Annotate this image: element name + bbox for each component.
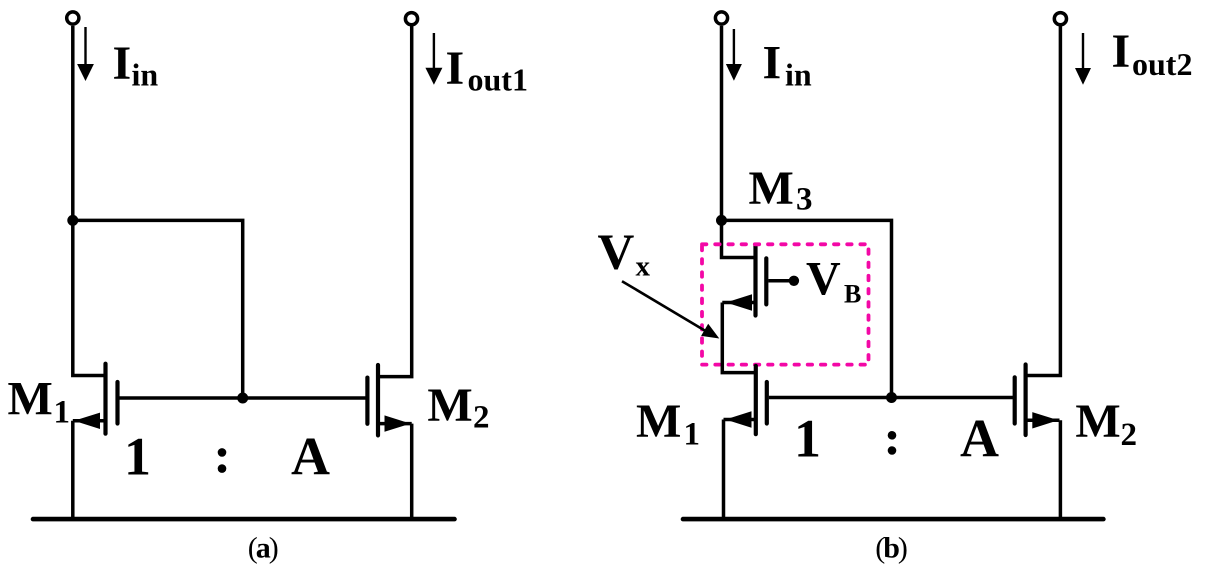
label V_B (b) bbox=[806, 252, 861, 308]
node: gate junction (a) bbox=[237, 393, 248, 404]
wire: input vertical (b) bbox=[720, 26, 724, 221]
svg-text:2: 2 bbox=[473, 400, 490, 436]
svg-text:V: V bbox=[806, 252, 841, 305]
wire: M1 source to ground (a) bbox=[71, 421, 75, 519]
label I_in (b) bbox=[763, 37, 812, 93]
svg-text:A: A bbox=[291, 426, 330, 486]
wire: top connection to gate column (b) bbox=[722, 220, 892, 397]
terminal: input port (b) bbox=[715, 12, 727, 24]
svg-text:1: 1 bbox=[684, 417, 701, 453]
label ratio colon (a) bbox=[218, 448, 227, 473]
svg-text:V: V bbox=[598, 225, 635, 281]
wire: M1 drain connection (a) bbox=[73, 219, 106, 376]
node: gate junction (b) bbox=[886, 392, 897, 403]
svg-text:(a): (a) bbox=[248, 532, 278, 565]
wire: M2 drain connection (b) bbox=[1026, 26, 1061, 376]
wire: M2 source to ground (b) bbox=[1059, 420, 1063, 519]
svg-text:I: I bbox=[446, 42, 465, 95]
svg-text:M: M bbox=[749, 162, 794, 215]
svg-text:2: 2 bbox=[1121, 417, 1138, 453]
wire: M3 drain connection (b) bbox=[722, 219, 756, 258]
label V_x (b) bbox=[598, 225, 651, 283]
wire: M2 source to ground (a) bbox=[410, 424, 414, 519]
svg-text:out2: out2 bbox=[1132, 46, 1192, 82]
wire: M3 source to M1 drain (b) bbox=[722, 303, 756, 373]
svg-text:M: M bbox=[636, 395, 681, 448]
transistor M2 (a) bbox=[367, 365, 411, 435]
svg-text:(b): (b) bbox=[875, 532, 907, 565]
svg-text:out1: out1 bbox=[468, 62, 528, 98]
svg-text:I: I bbox=[1112, 25, 1131, 78]
wire: diode connection (a) bbox=[73, 220, 243, 398]
label ratio colon (b) bbox=[888, 431, 897, 455]
terminal: output port (b) bbox=[1054, 13, 1066, 25]
wire: gate bus (b) bbox=[769, 396, 1015, 400]
svg-text:M: M bbox=[8, 373, 53, 426]
transistor M1 (b) bbox=[724, 366, 767, 434]
label I_out1 (a) bbox=[446, 42, 528, 98]
label M1 (b) bbox=[636, 395, 700, 452]
wire: input vertical (a) bbox=[71, 26, 75, 221]
svg-text:B: B bbox=[844, 279, 861, 308]
wire: M3 gate stub (b) bbox=[768, 279, 794, 283]
dashed highlight box (b) bbox=[702, 244, 869, 364]
node: VB gate dot (b) bbox=[789, 276, 799, 286]
wire: gate bus (a) bbox=[120, 396, 368, 400]
current arrow Iout2 (b) bbox=[1075, 33, 1091, 85]
terminal: output port (a) bbox=[405, 13, 417, 25]
svg-text:I: I bbox=[113, 37, 132, 90]
transistor M1 (a) bbox=[73, 364, 118, 434]
node: input junction (a) bbox=[67, 215, 78, 226]
transistor M3 (b) bbox=[722, 246, 766, 316]
wire: M1 source to ground (b) bbox=[722, 420, 726, 520]
ground rail (a) bbox=[33, 517, 455, 522]
label M2 (a) bbox=[427, 379, 489, 436]
svg-text:M: M bbox=[427, 379, 472, 432]
label M3 (b) bbox=[749, 162, 813, 218]
current arrow Iout1 (a) bbox=[425, 33, 442, 85]
svg-text:1: 1 bbox=[54, 395, 71, 431]
svg-text:M: M bbox=[1075, 395, 1120, 448]
wire: M2 drain connection (a) bbox=[378, 26, 412, 377]
current arrow Iin (b) bbox=[726, 29, 742, 81]
label I_in (a) bbox=[113, 37, 159, 93]
svg-text:1: 1 bbox=[794, 408, 821, 468]
annotation arrow Vx (b) bbox=[622, 281, 719, 338]
terminal: input port (a) bbox=[67, 12, 79, 24]
current arrow Iin (a) bbox=[77, 27, 94, 81]
ground rail (b) bbox=[683, 517, 1103, 522]
svg-text:in: in bbox=[785, 57, 812, 93]
label M1 (a) bbox=[8, 373, 71, 431]
svg-text:A: A bbox=[960, 408, 999, 468]
svg-text:3: 3 bbox=[796, 182, 813, 218]
svg-text:I: I bbox=[763, 37, 782, 90]
svg-text:1: 1 bbox=[124, 426, 151, 486]
svg-text:in: in bbox=[132, 57, 159, 93]
label M2 (b) bbox=[1075, 395, 1137, 453]
svg-text:x: x bbox=[636, 251, 651, 283]
transistor M2 (b) bbox=[1015, 365, 1060, 436]
node: input junction (b) bbox=[716, 215, 727, 226]
label I_out2 (b) bbox=[1112, 25, 1193, 82]
